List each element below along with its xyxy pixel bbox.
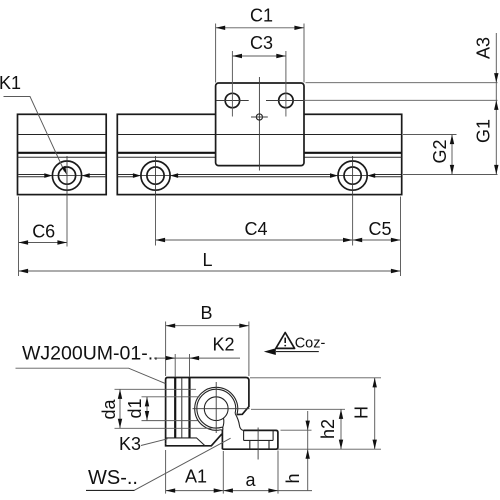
svg-text:C1: C1 — [250, 6, 273, 26]
rail axis centerline at hole 1 — [48, 175, 86, 177]
dimension h2 — [251, 409, 381, 449]
dimension C1 — [216, 6, 304, 83]
svg-text:K3: K3 — [119, 434, 141, 454]
label K1 with leader — [0, 73, 67, 175]
lamella thick line 1 — [174, 378, 176, 438]
carriage block — [216, 83, 304, 166]
dimension C6 — [19, 222, 68, 245]
carriage small center hole — [251, 114, 268, 120]
ext hole 3 center — [352, 196, 354, 246]
dimension B — [166, 303, 249, 376]
right rail thick line y153 — [117, 152, 401, 154]
bore crosshair horizontal — [193, 408, 250, 410]
mounting tab — [222, 430, 278, 449]
dimension da — [99, 389, 212, 428]
label K3 with leader — [119, 434, 168, 454]
carriage hole left — [216, 93, 248, 107]
svg-text:h2: h2 — [318, 419, 338, 439]
tab inner vertical — [272, 430, 274, 440]
svg-text:C3: C3 — [250, 33, 273, 53]
dimension G2 — [430, 135, 454, 175]
ext carriage top — [306, 82, 498, 84]
svg-text:K2: K2 — [212, 335, 234, 355]
rail axis centerline at hole 2 — [137, 175, 175, 177]
tab step vertical left — [249, 440, 251, 449]
dimension C5 — [353, 219, 401, 242]
tab step vertical right — [268, 440, 270, 449]
svg-text:WS-..: WS-.. — [88, 467, 138, 489]
housing ledge inner line — [166, 438, 205, 446]
svg-text:da: da — [99, 399, 119, 420]
svg-text:C6: C6 — [32, 222, 55, 242]
right rail groove double lines with arrowheads at holes 2,3 — [118, 173, 401, 178]
dimension A3 / G1 shared line — [474, 33, 499, 175]
svg-text:B: B — [200, 303, 212, 323]
left rail inner line y134 — [18, 134, 107, 136]
ext hole 2 center — [155, 196, 157, 246]
svg-text:Coz-: Coz- — [295, 335, 326, 351]
svg-text:h: h — [283, 473, 303, 483]
carriage centerline — [258, 77, 260, 171]
dimension L — [19, 250, 401, 273]
dimension K2 — [154, 335, 240, 377]
label WJ200UM-01 with leader — [16, 343, 166, 384]
lamella thick line 2 — [188, 378, 190, 438]
tab left face — [243, 430, 245, 440]
shaft circle — [204, 397, 228, 421]
lamella thin line — [181, 378, 183, 438]
rail axis centerline at hole 3 — [334, 175, 372, 177]
housing bottom-left ledge — [166, 434, 222, 446]
svg-text:A3: A3 — [474, 37, 494, 59]
svg-text:C5: C5 — [368, 219, 391, 239]
support foot left edge — [221, 430, 223, 450]
carriage hole right — [266, 93, 304, 107]
ext rail line G2 top — [403, 134, 457, 136]
rail hole 3 — [338, 156, 367, 196]
bearing shell outer arc — [195, 387, 238, 430]
bore crosshair vertical — [215, 382, 217, 433]
bearing shell inner arc — [197, 389, 236, 428]
left rail groove double lines with arrowheads at hole 1 — [18, 173, 105, 178]
support neck right curve — [235, 413, 244, 430]
warning triangle Coz- — [264, 333, 326, 356]
housing outline top/left — [166, 378, 249, 444]
svg-text:WJ200UM-01-..: WJ200UM-01-.. — [22, 343, 159, 365]
ext hole 1 center — [66, 196, 68, 247]
svg-text:K1: K1 — [0, 73, 21, 93]
ext rail left end — [18, 197, 20, 277]
svg-text:H: H — [352, 406, 372, 419]
right rail thin line y157 — [117, 156, 401, 158]
svg-text:a: a — [245, 470, 256, 490]
svg-text:A1: A1 — [185, 467, 207, 487]
dimension H — [250, 378, 381, 449]
right rail segment outline — [117, 114, 401, 194]
svg-text:G2: G2 — [430, 139, 450, 163]
ext groove line bottom — [403, 174, 498, 176]
rail hole 2 — [141, 156, 170, 196]
label WS with leader — [86, 438, 231, 490]
svg-text:G1: G1 — [474, 119, 494, 143]
support neck left curve — [223, 418, 224, 428]
svg-text:C4: C4 — [244, 219, 267, 239]
dimension d1 — [125, 397, 200, 421]
carriage inner line — [216, 134, 304, 136]
svg-text:L: L — [202, 250, 212, 270]
ext rail right end — [400, 197, 402, 277]
right rail inner line y134 — [117, 134, 401, 136]
rail hole 1 — [52, 156, 81, 196]
left rail thick line y153 — [18, 152, 107, 154]
svg-text:d1: d1 — [125, 398, 145, 418]
dimension C4 — [156, 219, 353, 242]
left rail thin line y157 — [18, 156, 107, 158]
left rail segment outline — [18, 114, 107, 194]
dimension h — [281, 411, 312, 491]
ext hole centerline — [304, 99, 498, 101]
dimensions A1 and a — [166, 450, 312, 494]
dimension C3 — [232, 33, 286, 117]
shell end curl — [221, 427, 223, 430]
tab screw centerline — [257, 428, 259, 460]
tab inner step line — [244, 439, 274, 441]
